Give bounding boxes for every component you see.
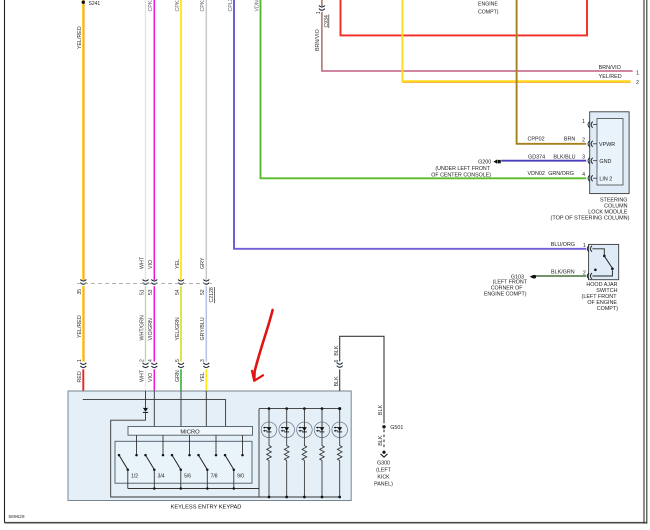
svg-text:RED: RED	[77, 371, 83, 382]
svg-text:GRN/ORG: GRN/ORG	[548, 171, 574, 177]
splice S241	[82, 1, 85, 4]
keypad switch 1/2	[118, 435, 139, 488]
svg-text:3: 3	[582, 155, 585, 161]
svg-text:BRN/VIO: BRN/VIO	[315, 29, 321, 51]
MICRO box	[128, 427, 253, 436]
svg-text:BLK: BLK	[334, 376, 340, 386]
svg-text:S241: S241	[89, 1, 101, 7]
wire BRN/VIO horizontal to right edge pin 1	[322, 69, 633, 72]
svg-text:CPK2: CPK2	[200, 0, 206, 12]
svg-text:C2128: C2128	[209, 287, 215, 302]
svg-text:1: 1	[316, 11, 322, 14]
hood ajar switch box	[589, 244, 619, 279]
svg-text:(LEFT: (LEFT	[376, 468, 391, 474]
svg-text:BLK/GRN: BLK/GRN	[551, 269, 575, 275]
wire BLU/ORG horizontal to hood ajar switch	[234, 247, 586, 250]
svg-text:WHT: WHT	[139, 369, 145, 382]
annotation red arrow	[254, 310, 272, 379]
svg-text:9/0: 9/0	[237, 474, 244, 480]
page border right (double)	[643, 0, 645, 524]
svg-text:YEL/GRN: YEL/GRN	[175, 317, 181, 340]
svg-text:2: 2	[582, 138, 585, 144]
svg-text:(UNDER LEFT FRONT: (UNDER LEFT FRONT	[435, 166, 490, 172]
keypad switch 7/8	[197, 435, 218, 488]
dashed BLK to G300	[383, 430, 385, 450]
svg-text:CPL2: CPL2	[228, 0, 234, 12]
wire GRN/ORG horizontal to lock module pin 4	[261, 177, 587, 178]
svg-text:35: 35	[77, 289, 83, 295]
wire YEL/RED vertical (circuit from S241)	[82, 0, 84, 280]
keypad internal: red feed to MICRO	[83, 399, 225, 427]
svg-text:VDN0: VDN0	[254, 0, 260, 12]
wire BRN/VIO vertical with connector C934	[321, 0, 323, 6]
module pin 1 (empty)	[588, 122, 590, 128]
svg-text:1: 1	[636, 70, 639, 76]
svg-text:53: 53	[148, 289, 154, 295]
wire WHT vertical	[145, 0, 147, 280]
connector C2128 pin 35	[80, 280, 86, 282]
svg-text:MICRO: MICRO	[180, 429, 200, 435]
svg-text:YEL/RED: YEL/RED	[599, 74, 622, 80]
svg-text:BLU/ORG: BLU/ORG	[551, 242, 575, 248]
LED 3 with resistor	[297, 407, 313, 498]
connector C2128 pin 51	[143, 280, 149, 282]
ground G300 symbol	[382, 451, 385, 454]
hood switch pin 2	[587, 273, 589, 279]
svg-text:2: 2	[139, 359, 145, 362]
svg-text:KICK: KICK	[377, 475, 390, 481]
wire BLK/GRN to G103	[535, 275, 586, 277]
ground junction G501	[382, 425, 385, 428]
wire VIO vertical (CPK)	[153, 0, 155, 280]
hood switch internals	[592, 249, 604, 256]
svg-text:1: 1	[582, 119, 585, 125]
keypad internal: GRN input	[180, 391, 182, 427]
svg-text:(LEFT FRONT: (LEFT FRONT	[493, 280, 528, 286]
keypad switch common rail	[128, 488, 259, 490]
svg-text:5/6: 5/6	[184, 474, 191, 480]
LED 1 with resistor	[261, 407, 277, 498]
svg-text:CPK2: CPK2	[175, 0, 181, 12]
svg-text:2: 2	[636, 80, 639, 86]
svg-text:589629: 589629	[9, 514, 25, 520]
wire RED bridge (engine compt)	[341, 0, 588, 35]
module pin 2 VPWR	[588, 141, 590, 147]
module inner box	[597, 119, 623, 186]
svg-text:YEL: YEL	[200, 372, 206, 382]
svg-text:4: 4	[148, 359, 154, 362]
LED feed rail	[259, 409, 340, 497]
keypad switch 5/6	[171, 435, 192, 488]
keyless entry keypad box	[68, 391, 351, 501]
svg-text:G200: G200	[478, 159, 491, 165]
svg-text:BLK: BLK	[378, 435, 384, 445]
module pin 3 GND	[588, 158, 590, 164]
wire YEL/RED to right edge pin 2	[402, 0, 630, 81]
svg-text:C934: C934	[324, 15, 330, 28]
svg-text:GRN: GRN	[175, 370, 181, 382]
page border left	[4, 0, 6, 523]
svg-text:7/8: 7/8	[211, 474, 218, 480]
svg-text:OF CENTER CONSOLE): OF CENTER CONSOLE)	[431, 172, 491, 178]
wire BLU vertical (CPL)	[233, 0, 235, 249]
svg-text:WHT/GRN: WHT/GRN	[139, 315, 145, 340]
svg-text:PANEL): PANEL)	[374, 482, 393, 488]
keypad switch 9/0	[224, 435, 245, 488]
svg-text:GRY/BLU: GRY/BLU	[200, 317, 206, 340]
svg-text:BLK/BLU: BLK/BLU	[553, 155, 575, 161]
keypad internal: WHT input with diode to common rail	[145, 391, 147, 408]
keypad internal: VIO input	[153, 391, 155, 427]
svg-text:KEYLESS ENTRY KEYPAD: KEYLESS ENTRY KEYPAD	[171, 504, 242, 510]
svg-text:1: 1	[77, 359, 83, 362]
svg-text:(TOP OF STEERING COLUMN): (TOP OF STEERING COLUMN)	[551, 216, 630, 222]
wire YEL vertical (CPK)	[180, 0, 182, 280]
wire BRN vertical to lock module pin 2	[517, 0, 587, 144]
wire BLK/BLU G200 to module pin 3	[501, 160, 586, 162]
svg-text:LIN 2: LIN 2	[599, 176, 612, 182]
svg-text:5: 5	[175, 359, 181, 362]
svg-text:G501: G501	[390, 425, 403, 431]
svg-text:YEL/RED: YEL/RED	[77, 315, 83, 338]
ground G103	[530, 275, 534, 278]
svg-text:3/4: 3/4	[158, 474, 165, 480]
svg-text:ENGINE COMPT): ENGINE COMPT)	[484, 291, 527, 297]
key matrix box	[115, 441, 252, 483]
svg-text:BLK: BLK	[378, 404, 384, 415]
svg-text:CPP02: CPP02	[528, 137, 545, 143]
svg-text:GD374: GD374	[528, 155, 545, 161]
keypad switch 3/4	[144, 435, 165, 488]
connector C2128 pin 54	[178, 280, 184, 282]
svg-text:YEL/RED: YEL/RED	[77, 26, 83, 49]
wire GRN vertical (VDN)	[260, 0, 262, 178]
svg-text:BRN: BRN	[564, 137, 575, 143]
svg-text:1: 1	[583, 243, 586, 249]
module steering column lock: outer box	[590, 112, 629, 194]
svg-text:COMPT): COMPT)	[597, 306, 618, 312]
svg-text:WHT: WHT	[139, 256, 145, 269]
svg-text:ENGINE: ENGINE	[478, 2, 498, 8]
diode	[143, 408, 148, 412]
svg-text:BRN/VIO: BRN/VIO	[599, 65, 621, 71]
svg-text:YEL: YEL	[175, 259, 181, 269]
svg-text:VPWR: VPWR	[599, 142, 615, 148]
connector C2128 pin 52	[203, 280, 209, 282]
module pin 4 LIN 2	[588, 175, 590, 181]
svg-text:GRY: GRY	[200, 257, 206, 269]
ground G200	[493, 159, 497, 163]
svg-text:6: 6	[334, 359, 340, 362]
wire BLK from keypad LED rail to ground	[338, 407, 341, 410]
svg-text:CPK2: CPK2	[148, 0, 154, 12]
svg-text:1/2: 1/2	[131, 474, 138, 480]
svg-text:COMPT): COMPT)	[478, 10, 499, 16]
svg-text:VIO: VIO	[148, 373, 154, 382]
svg-text:3: 3	[200, 359, 206, 362]
LED 4 with resistor	[314, 407, 330, 498]
svg-text:VDN02: VDN02	[528, 171, 545, 177]
keypad internal: YEL input	[205, 391, 207, 427]
svg-text:52: 52	[200, 289, 206, 295]
rail junction dots	[153, 487, 235, 490]
hood switch pin 1	[587, 246, 589, 252]
LED 5 with resistor	[332, 407, 348, 498]
LED 2 with resistor	[279, 407, 295, 498]
wire GRY vertical (CPK)	[205, 0, 207, 280]
svg-text:GND: GND	[599, 159, 611, 165]
svg-text:54: 54	[175, 289, 181, 295]
svg-text:BLK: BLK	[334, 345, 340, 355]
wire RED into keypad	[82, 369, 84, 399]
svg-text:VIO: VIO	[148, 260, 154, 269]
connector C2128 dashed line	[77, 282, 212, 284]
svg-text:G300: G300	[377, 461, 390, 467]
page border bottom	[5, 522, 647, 524]
svg-text:4: 4	[582, 172, 585, 178]
svg-text:51: 51	[139, 289, 145, 295]
svg-text:VIO/GRN: VIO/GRN	[148, 318, 154, 341]
connector C2128 pin 53	[151, 280, 157, 282]
